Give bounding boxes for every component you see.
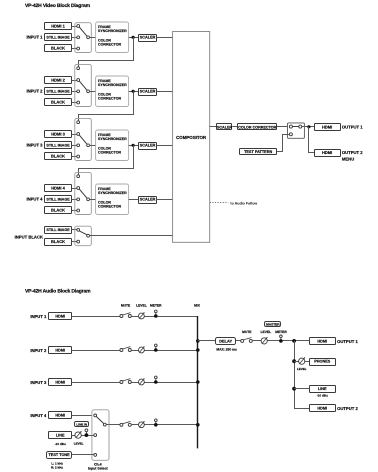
- svg-text:HDMI: HDMI: [55, 314, 65, 318]
- svg-text:BLACK: BLACK: [51, 46, 65, 51]
- ch4 selector pin: HDMI: [94, 414, 97, 417]
- wire color corrector to output selector: [277, 126, 288, 128]
- frame synchronizer / color corrector box (input 4): [96, 184, 129, 215]
- level control (audio input 1): [139, 312, 145, 319]
- frame synchronizer / color corrector box (input 3): [96, 130, 129, 161]
- junction node: line out tap: [292, 387, 296, 391]
- svg-text:MIX: MIX: [194, 304, 201, 308]
- level control (audio input 4): [139, 421, 145, 428]
- wire STILL IMAGE to selector (input black): [72, 229, 77, 231]
- mute switch (audio input 4): [120, 421, 131, 426]
- wire junction to HDMI output 2: [309, 127, 315, 153]
- svg-text:HDMI: HDMI: [55, 413, 65, 417]
- wire selector to frame synchronizer (input 1): [90, 37, 96, 39]
- svg-text:OUTPUT 1: OUTPUT 1: [337, 339, 358, 344]
- wire output scaler to color corrector: [232, 126, 238, 128]
- selector blade (input 2): [79, 81, 87, 90]
- source box STILL IMAGE (input 3): [45, 142, 72, 149]
- wire frame synchronizer to scaler (input 2): [129, 91, 139, 93]
- svg-text:INPUT 1: INPUT 1: [26, 35, 43, 40]
- output selector switch: [288, 123, 305, 138]
- mix bus: [197, 316, 199, 448]
- ch4 selector pin: TEST TONE: [94, 454, 97, 457]
- audio HDMI input 4 box: [49, 412, 72, 419]
- wire mute to mix bus (audio input 1): [131, 316, 198, 318]
- wire master mute to HDMI output 1: [252, 340, 309, 342]
- wire ch4 selector to mute: [106, 424, 120, 426]
- wire HDMI 1 to selector: [72, 26, 77, 28]
- svg-text:METER: METER: [150, 304, 162, 308]
- wire mute to mix bus (audio input 2): [131, 350, 198, 352]
- level control (audio input 2): [139, 346, 145, 353]
- selector blade (input 3): [79, 135, 87, 144]
- svg-text:-10 dBu: -10 dBu: [317, 394, 328, 398]
- svg-text:OUTPUT 2: OUTPUT 2: [342, 150, 363, 155]
- source box STILL IMAGE (input 1): [45, 34, 72, 41]
- wire mute to mix bus (audio input 4): [131, 424, 198, 426]
- ch4 selector blade: [96, 417, 103, 424]
- wire TEST TONE to ch4 selector: [72, 454, 94, 456]
- wire HDMI 3 to selector: [72, 134, 77, 136]
- source box BLACK (input 1): [45, 45, 72, 52]
- selector blade (input 4): [79, 189, 87, 198]
- level control (audio input 3): [139, 378, 145, 385]
- scaler box (input 1): [139, 35, 157, 42]
- mute switch (audio input 3): [120, 379, 131, 384]
- svg-text:Input Select: Input Select: [88, 466, 109, 470]
- wire STILL IMAGE to selector (input 3): [72, 145, 77, 147]
- selector output pin (input 1): [87, 36, 90, 39]
- svg-text:LINE IN: LINE IN: [76, 423, 87, 427]
- wire frame synchronizer to scaler (input 4): [129, 199, 139, 201]
- svg-text:HDMI 2: HDMI 2: [51, 77, 65, 82]
- junction node input 1 (cascade tap): [132, 36, 135, 39]
- svg-text:CORRECTOR: CORRECTOR: [98, 205, 121, 209]
- svg-text:LEVEL: LEVEL: [297, 367, 307, 371]
- selector pin: STILL IMAGE (input black): [77, 228, 80, 231]
- svg-text:OUTPUT 2: OUTPUT 2: [337, 406, 358, 411]
- svg-text:BLACK: BLACK: [51, 239, 65, 244]
- svg-text:CORRECTOR: CORRECTOR: [98, 43, 121, 47]
- wire audio input 2 to mute switch: [72, 350, 120, 352]
- selector pin: cascade from input 2: [77, 121, 80, 124]
- TEST TONE generator box: [47, 452, 72, 459]
- selector pin: cascade from input 1: [77, 67, 80, 70]
- junction node: phones tap: [292, 359, 296, 363]
- wire output selector to HDMI output 1: [302, 126, 314, 128]
- svg-text:SCALER: SCALER: [140, 198, 156, 202]
- svg-text:MENU: MENU: [342, 157, 354, 162]
- audio HDMI output 2 box: [310, 405, 336, 412]
- svg-text:VP-42H Video Block Diagram: VP-42H Video Block Diagram: [25, 3, 91, 9]
- selector output pin (input black): [87, 234, 90, 237]
- svg-text:VP-42H Audio Block Diagram: VP-42H Audio Block Diagram: [25, 288, 91, 294]
- svg-text:LEVEL: LEVEL: [260, 330, 271, 334]
- ch4 selector output pin: [103, 423, 106, 426]
- input 2 source selector switch SW2: [75, 64, 92, 106]
- svg-text:BLACK: BLACK: [51, 154, 65, 159]
- svg-text:CORRECTOR: CORRECTOR: [98, 151, 121, 155]
- selector pin: HDMI 3: [77, 133, 80, 136]
- svg-text:-10 dBu: -10 dBu: [55, 442, 66, 446]
- svg-text:INPUT BLACK: INPUT BLACK: [15, 234, 43, 239]
- mix bus junction: input 3: [196, 380, 200, 384]
- svg-text:MASTER: MASTER: [266, 322, 280, 326]
- svg-text:COMPOSITOR: COMPOSITOR: [176, 135, 207, 140]
- wire scaler to compositor (input 2): [156, 91, 172, 93]
- compositor box U1: [173, 32, 210, 243]
- source box BLACK (input 4): [45, 207, 72, 214]
- input black selector switch: [75, 226, 92, 246]
- master level control: [261, 337, 268, 344]
- svg-text:TEST TONE: TEST TONE: [48, 453, 70, 457]
- wire LINE to ch4 selector: [72, 435, 94, 437]
- svg-text:INPUT 3: INPUT 3: [26, 143, 43, 148]
- LINE input box: [49, 432, 72, 439]
- wire BLACK to selector (input 1): [72, 48, 77, 50]
- ch4 selector pin: LINE: [94, 434, 97, 437]
- input 1 source selector switch SW1: [75, 23, 92, 53]
- svg-text:INPUT 2: INPUT 2: [30, 348, 47, 353]
- master mute switch: [241, 338, 253, 343]
- wire HDMI 4 to ch4 selector: [72, 415, 94, 417]
- meter tap (audio input 1): [154, 310, 158, 318]
- source box STILL IMAGE (input 4): [45, 196, 72, 203]
- selector pin: BLACK (input 4): [77, 209, 80, 212]
- source box STILL IMAGE (input 2): [45, 88, 72, 95]
- cascade wire input 3 to input 4 selector: [79, 145, 134, 175]
- input 3 source selector switch SW3: [75, 118, 92, 160]
- wire HDMI 2 to selector: [72, 80, 77, 82]
- selector pin: HDMI 4: [77, 187, 80, 190]
- selector pin: HDMI 1: [77, 25, 80, 28]
- svg-text:MAX: 250 ms: MAX: 250 ms: [216, 348, 237, 352]
- output selector pin: test pattern: [289, 133, 292, 136]
- selector blade (input 1): [79, 27, 87, 36]
- svg-text:SYNCHRONIZER: SYNCHRONIZER: [98, 137, 127, 141]
- wire trunk to HDMI output 2: [295, 341, 310, 409]
- svg-text:OUTPUT 1: OUTPUT 1: [342, 125, 363, 130]
- source box BLACK (input 2): [45, 99, 72, 106]
- wire input black selector to compositor: [90, 235, 173, 237]
- svg-text:MUTE: MUTE: [121, 304, 131, 308]
- label box MASTER: [265, 322, 281, 327]
- meter tap (audio input 4): [154, 419, 158, 427]
- source box STILL IMAGE (input black): [45, 227, 72, 234]
- svg-text:HDMI 4: HDMI 4: [51, 185, 65, 190]
- ch.4 input selector switch: [92, 410, 109, 461]
- svg-text:INPUT 1: INPUT 1: [30, 314, 47, 319]
- meter tap (audio input 3): [154, 376, 158, 384]
- svg-text:SYNCHRONIZER: SYNCHRONIZER: [98, 83, 127, 87]
- mix bus junction: input 4: [196, 423, 200, 427]
- svg-text:HDMI: HDMI: [55, 380, 65, 384]
- selector pin: STILL IMAGE (input 4): [77, 198, 80, 201]
- wire BLACK to selector (input 4): [72, 210, 77, 212]
- svg-text:STILL IMAGE: STILL IMAGE: [46, 89, 70, 93]
- selector pin: STILL IMAGE (input 2): [77, 90, 80, 93]
- DELAY box: [216, 338, 236, 345]
- mute switch (audio input 1): [120, 313, 131, 318]
- wire scaler to compositor (input 1): [156, 37, 172, 39]
- wire scaler to compositor (input 4): [156, 199, 172, 201]
- selector output pin (input 2): [87, 90, 90, 93]
- selector pin: HDMI 2: [77, 79, 80, 82]
- selector blade (input black): [79, 231, 87, 235]
- junction node: output split: [307, 125, 310, 128]
- junction node: line in: [85, 433, 89, 437]
- wire compositor to output scaler: [210, 126, 217, 128]
- svg-text:LINE: LINE: [56, 433, 65, 437]
- svg-text:STILL IMAGE: STILL IMAGE: [46, 35, 70, 39]
- wire audio input 3 to mute switch: [72, 382, 120, 384]
- svg-text:SCALER: SCALER: [217, 125, 232, 129]
- wire BLACK to selector (input 3): [72, 156, 77, 158]
- wire HDMI 4 to selector: [72, 188, 77, 190]
- svg-text:CORRECTOR: CORRECTOR: [98, 97, 121, 101]
- meter tap (audio input 2): [154, 344, 158, 352]
- scaler box (input 2): [139, 89, 157, 96]
- output selector pin: program: [289, 125, 292, 128]
- wire selector to frame synchronizer (input 4): [90, 199, 96, 201]
- selector pin: STILL IMAGE (input 3): [77, 144, 80, 147]
- svg-text:HDMI: HDMI: [322, 124, 332, 129]
- svg-text:DELAY: DELAY: [219, 339, 232, 344]
- wire mix bus to delay: [198, 340, 216, 342]
- svg-text:STILL IMAGE: STILL IMAGE: [46, 228, 70, 232]
- dashed wire to audio follow: [210, 202, 229, 204]
- wire delay to master mute: [236, 340, 241, 342]
- source box HDMI 2: [45, 77, 72, 84]
- svg-text:TEST PATTERN: TEST PATTERN: [244, 150, 272, 154]
- svg-text:R: 2 kHz: R: 2 kHz: [51, 466, 63, 470]
- junction node: audio output split: [292, 339, 296, 343]
- output color corrector box: [238, 124, 277, 130]
- svg-text:LEVEL: LEVEL: [74, 441, 84, 445]
- cascade wire input 1 to input 2 selector: [79, 37, 134, 67]
- svg-text:COLOR CORRECTOR: COLOR CORRECTOR: [238, 125, 276, 129]
- svg-text:HDMI: HDMI: [317, 339, 327, 343]
- PHONES output box: [310, 359, 336, 366]
- selector pin: BLACK (input black): [77, 240, 80, 243]
- label box LINE IN: [75, 422, 89, 427]
- wire STILL IMAGE to selector (input 1): [72, 37, 77, 39]
- junction node input 3 (cascade tap): [132, 144, 135, 147]
- svg-text:SCALER: SCALER: [140, 144, 156, 148]
- mute switch (audio input 2): [120, 347, 131, 352]
- master meter tap: [279, 335, 283, 343]
- selector pin: BLACK (input 1): [77, 47, 80, 50]
- wire audio input 1 to mute switch: [72, 316, 120, 318]
- source box HDMI 3: [45, 131, 72, 138]
- svg-text:PHONES: PHONES: [314, 360, 331, 364]
- wire selector to frame synchronizer (input 2): [90, 91, 96, 93]
- junction node input 2 (cascade tap): [132, 90, 135, 93]
- cascade wire input 2 to input 3 selector: [79, 91, 134, 121]
- svg-text:STILL IMAGE: STILL IMAGE: [46, 143, 70, 147]
- svg-text:HDMI: HDMI: [317, 406, 327, 410]
- scaler box (input 4): [139, 197, 157, 204]
- selector pin: BLACK (input 3): [77, 155, 80, 158]
- svg-text:STILL IMAGE: STILL IMAGE: [46, 197, 70, 201]
- audio HDMI input 1 box: [49, 313, 72, 320]
- svg-text:SCALER: SCALER: [140, 90, 156, 94]
- svg-text:INPUT 4: INPUT 4: [26, 197, 43, 202]
- svg-text:SYNCHRONIZER: SYNCHRONIZER: [98, 29, 127, 33]
- wire line in connector to line path: [86, 432, 88, 435]
- svg-text:HDMI: HDMI: [55, 348, 65, 352]
- output scaler box: [217, 124, 233, 130]
- wire STILL IMAGE to selector (input 4): [72, 199, 77, 201]
- input 4 source selector switch SW4: [75, 172, 92, 214]
- svg-text:BLACK: BLACK: [51, 208, 65, 213]
- source box BLACK (input 3): [45, 153, 72, 160]
- svg-text:SCALER: SCALER: [140, 36, 156, 40]
- wire to phones: [294, 361, 309, 363]
- svg-text:INPUT 2: INPUT 2: [26, 89, 43, 94]
- output selector output pin: [299, 125, 302, 128]
- wire selector to frame synchronizer (input 3): [90, 145, 96, 147]
- selector output pin (input 3): [87, 144, 90, 147]
- svg-text:LEVEL: LEVEL: [136, 304, 147, 308]
- svg-text:to Audio Follow: to Audio Follow: [230, 201, 257, 205]
- audio HDMI input 2 box: [49, 347, 72, 354]
- wire STILL IMAGE to selector (input 2): [72, 91, 77, 93]
- svg-text:SYNCHRONIZER: SYNCHRONIZER: [98, 191, 127, 195]
- wire mute to mix bus (audio input 3): [131, 382, 198, 384]
- line in connector: [85, 429, 88, 432]
- wire scaler to compositor (input 3): [156, 145, 172, 147]
- wire test pattern to output selector: [277, 135, 290, 152]
- frame synchronizer / color corrector box (input 1): [96, 22, 129, 53]
- svg-text:METER: METER: [275, 330, 287, 334]
- wire frame synchronizer to scaler (input 3): [129, 145, 139, 147]
- svg-text:HDMI 1: HDMI 1: [51, 23, 65, 28]
- line level control: [75, 431, 82, 438]
- scaler box (input 3): [139, 143, 157, 150]
- selector output pin (input 4): [87, 198, 90, 201]
- svg-text:BLACK: BLACK: [51, 100, 65, 105]
- phones level control: [299, 357, 306, 364]
- LINE output box: [310, 386, 336, 393]
- selector pin: STILL IMAGE (input 1): [77, 36, 80, 39]
- wire frame synchronizer to scaler (input 1): [129, 37, 139, 39]
- source box HDMI 1: [45, 23, 72, 30]
- selector pin: cascade from input 3: [77, 175, 80, 178]
- source box BLACK (input black): [45, 239, 72, 246]
- wire BLACK to selector (input black): [72, 241, 77, 243]
- mix bus junction: input 2: [196, 348, 200, 352]
- audio HDMI input 3 box: [49, 379, 72, 386]
- source box HDMI 4: [45, 185, 72, 192]
- wire to line out: [294, 388, 309, 390]
- svg-text:HDMI: HDMI: [322, 150, 332, 155]
- selector pin: BLACK (input 2): [77, 101, 80, 104]
- HDMI output 1 connector box: [315, 124, 341, 131]
- svg-text:INPUT 4: INPUT 4: [30, 413, 47, 418]
- svg-text:INPUT 3: INPUT 3: [30, 380, 47, 385]
- mix bus junction: master tap: [196, 339, 200, 343]
- test pattern generator box: [240, 149, 277, 155]
- output selector blade: [292, 126, 298, 128]
- frame synchronizer / color corrector box (input 2): [96, 76, 129, 107]
- audio HDMI output 1 box: [310, 338, 336, 345]
- svg-text:MUTE: MUTE: [242, 330, 252, 334]
- wire BLACK to selector (input 2): [72, 102, 77, 104]
- svg-text:HDMI 3: HDMI 3: [51, 131, 65, 136]
- HDMI output 2 connector box: [315, 150, 341, 157]
- svg-text:LINE: LINE: [318, 387, 327, 391]
